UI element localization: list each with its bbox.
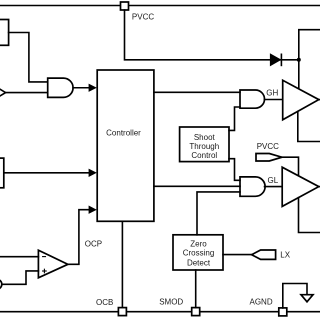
- wire: SMOD terminal up to zero crossing detect: [195, 270, 197, 308]
- wire: AND1 output to controller (arrow): [73, 84, 97, 92]
- gate: GH AND: [240, 90, 265, 108]
- svg-text:PVCC: PVCC: [132, 13, 154, 22]
- comparator minus marker: [43, 256, 46, 258]
- node PVCC terminal square: [121, 2, 129, 10]
- wire: low-side driver return (exits right): [299, 198, 320, 233]
- svg-text:Zero: Zero: [190, 239, 207, 248]
- wire: bootstrap down to high-side driver supply: [298, 60, 300, 90]
- reference source (cut off circle): [0, 279, 2, 289]
- wire: bottom border AGND rail: [0, 311, 320, 313]
- comparator minus input wire: [0, 256, 38, 258]
- node: PVCC tag for low-side driver: [256, 154, 282, 162]
- svg-text:GH: GH: [266, 88, 278, 97]
- wire: controller to OCB terminal: [121, 221, 123, 307]
- wire: shoot-through control to GL gate top input: [229, 159, 240, 181]
- wire: high-side driver return to LX (exits right): [298, 112, 320, 142]
- wire: comparator output up to controller OCP input (arrow): [68, 206, 97, 265]
- label Zero Crossing Detect: [183, 239, 215, 267]
- label Shoot Through Control: [189, 133, 219, 160]
- svg-text:PVCC: PVCC: [257, 142, 279, 151]
- svg-text:Control: Control: [191, 151, 217, 160]
- wire: PVCC tag to low-side driver supply: [282, 157, 299, 176]
- ground symbol: [301, 295, 313, 302]
- node: LX tag: [252, 250, 276, 259]
- svg-text:Detect: Detect: [187, 258, 211, 267]
- svg-text:OCP: OCP: [85, 240, 102, 249]
- comparator plus marker: [43, 269, 47, 273]
- gate: GL AND: [240, 177, 265, 196]
- wire: bootstrap up and out right: [299, 30, 320, 60]
- wire: controller to GH gate input: [154, 91, 240, 93]
- wire: GH gate output to high-side driver: [265, 99, 283, 101]
- amplifier: low-side gate driver: [282, 167, 319, 206]
- wire: high-side driver output: [319, 99, 320, 101]
- svg-text:LX: LX: [280, 251, 290, 260]
- wire: upper-left box to AND1 top input: [9, 33, 48, 82]
- svg-text:Controller: Controller: [106, 129, 141, 138]
- svg-text:GL: GL: [268, 176, 279, 185]
- node SMOD terminal square: [192, 308, 200, 316]
- amplifier: high-side gate driver: [283, 80, 319, 120]
- op-amp: OCP comparator: [38, 250, 68, 278]
- wire: shoot-through control to GH gate bottom input: [229, 107, 240, 130]
- wire: zero crossing detect to LX tag: [223, 254, 252, 256]
- block: partial box upper-left (cut off): [0, 20, 9, 46]
- node: bootstrap junction: [297, 58, 301, 62]
- wire: GL gate output to low-side driver: [265, 186, 283, 188]
- node OCB terminal square: [118, 308, 126, 316]
- svg-text:AGND: AGND: [250, 297, 273, 306]
- wire: controller to GL gate middle input: [154, 185, 240, 187]
- block: partial box mid-left (cut off): [0, 158, 4, 188]
- block: Controller: [97, 70, 154, 221]
- wire: low-side driver output: [319, 186, 320, 188]
- block: Zero Crossing Detect: [173, 235, 223, 270]
- wire: mid-left box to controller (arrow): [4, 169, 97, 177]
- wire: PVCC terminal down and right to diode: [125, 10, 271, 60]
- wire: left input to AND1 bottom input: [6, 92, 48, 94]
- gate: AND1: [48, 78, 73, 97]
- block: Shoot Through Control: [180, 127, 229, 162]
- diode D1: [271, 54, 299, 65]
- svg-text:SMOD: SMOD: [159, 297, 183, 306]
- wire: AGND terminal to ground symbol: [283, 284, 307, 308]
- wire: top border PVCC rail: [0, 5, 320, 7]
- svg-text:Through: Through: [189, 142, 219, 151]
- svg-text:Shoot: Shoot: [194, 133, 216, 142]
- wire: zero crossing detect up to GL gate input: [197, 192, 240, 235]
- svg-text:OCB: OCB: [96, 298, 113, 307]
- node AGND terminal square: [279, 308, 287, 316]
- comparator plus input wire to reference: [2, 271, 39, 284]
- svg-text:Crossing: Crossing: [183, 249, 215, 258]
- node: input arrow at left edge: [0, 89, 6, 97]
